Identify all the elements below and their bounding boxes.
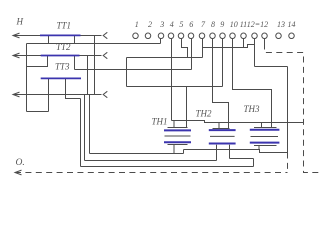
arrowhead right TT1 [103,32,107,38]
arrowhead right TT2 [103,52,107,58]
terminal 9 [220,33,226,39]
arrow left on TT2 primary [13,53,20,58]
wire TH1 bottom lead [173,145,175,154]
svg-text:7: 7 [201,20,206,29]
wire terminal 7 stem [202,39,204,58]
transformer TH2 core line [210,135,235,137]
transformer TH3 label [244,104,261,114]
terminal 12 [252,33,258,39]
wire terminal 11 stem [243,39,245,48]
wire terminal 12 stem down [254,39,256,67]
wire riser x183.4 [183,150,185,154]
transformer TH3 core line [251,136,279,138]
svg-text:Н: Н [16,17,24,27]
wire dashed from terminal 12b [265,44,320,173]
transformer TH1 bottom plate [168,144,188,146]
wire link y149 to TH2 [184,150,288,153]
wire TT2 secondary left lead [27,56,48,67]
transformer TH3 primary bar [250,129,280,131]
svg-text:ТН2: ТН2 [196,109,213,119]
transformer TH3 top plate [254,127,277,129]
transformer TT3 label [55,62,70,72]
transformer TH2 primary bar [209,129,236,131]
wire horizontal run y43 from bus to terminal 3 [27,43,161,45]
svg-text:ТН3: ТН3 [244,104,261,114]
wire TH2 left bottom lead [216,145,218,161]
transformer TH1 top plate [168,127,188,129]
terminal 2 [145,33,151,39]
transformer TH3 secondary bar [250,142,280,144]
wire TT1 secondary left lead [48,36,50,44]
wire terminal 9 stem [222,39,224,87]
svg-text:1: 1 [135,20,139,29]
wire voltage tap from TT2 line [87,56,89,95]
wire terminal 6 stem [191,39,193,70]
svg-text:9: 9 [220,20,224,29]
wire mid bottom run y160.2 [85,160,217,162]
svg-text:14: 14 [288,20,296,29]
wire TT2 secondary right lead [74,56,76,70]
transformer TT2 winding bar [41,55,80,57]
transformer TH3 bottom plate [254,145,277,147]
terminal 6 [188,33,194,39]
wire TH2 right bottom lead [229,145,231,159]
arrowhead right TT3 [103,91,107,97]
terminal 1 [133,33,139,39]
transformer TH1 label [152,117,168,127]
wire TH3 left top lead [261,123,263,128]
wire terminal 10 stem to TH3 [233,39,272,128]
wire vertical x118.2 [126,58,128,87]
wire voltage tap from TT1 line [94,36,96,95]
wire TT2 primary line [13,55,102,57]
svg-text:ТН1: ТН1 [152,117,168,127]
wire vertical x286.9 [287,67,289,153]
transformer TH2 top plate [213,128,230,130]
wire TH2 top lead from rail [218,123,220,129]
svg-text:ТТ1: ТТ1 [57,21,72,31]
terminal 8 [210,33,216,39]
transformer TT3 winding bar [41,77,81,79]
arrow left on TT1 primary [13,33,20,38]
svg-text:10: 10 [230,20,238,29]
wire bottom run y153.4 [90,153,184,155]
wire terminal 3 stem [160,39,162,44]
wire horizontal run y69.7 to terminal 6 [75,69,192,71]
terminal 7 [199,33,205,39]
svg-text:6: 6 [189,20,193,29]
wire TT3 primary line [13,94,102,96]
terminal number labels 1-14 [135,20,296,29]
wire terminal 5 jog [182,39,188,58]
svg-text:О.: О. [16,158,25,168]
arrow left on O bus [15,170,22,175]
wire TT1 secondary right lead [74,36,76,44]
transformer TT1 label [57,21,72,31]
wire horizontal y111 [27,111,49,113]
svg-text:3: 3 [159,20,164,29]
wire bottom run y166.1 [81,166,254,168]
svg-text:4: 4 [170,20,174,29]
wire terminal 4 stem to TH rail [171,39,173,121]
terminal 13 [276,33,282,39]
svg-text:13: 13 [277,20,285,29]
arrow left on TT3 primary [13,92,20,97]
transformer TT1 winding bar [40,34,81,36]
terminal 11 [241,33,247,39]
wire horizontal run y86.6 to terminal 9 [127,86,223,88]
wire riser x186.6 to TH1 [186,87,188,128]
transformer TT2 label [56,42,71,52]
wire run y67 to right [255,66,288,68]
wire TH1 top lead [173,121,175,128]
svg-text:5: 5 [179,20,183,29]
terminal 5 [178,33,184,39]
terminal 4 [168,33,174,39]
svg-text:12=12: 12=12 [247,20,268,29]
wire left vertical bus [26,44,28,112]
wire TH3 bottom lead [258,146,260,150]
wire horizontal run y47.1 terminals 7-12 [203,45,255,48]
wire TH top rail [172,121,305,123]
node H label [16,17,24,27]
wire terminal 12b solid stub [264,39,266,44]
terminal 3 [158,33,164,39]
transformer TH2 secondary bar [209,143,236,145]
transformer TH1 primary bar [164,129,191,131]
terminal 12b [262,33,268,39]
wire riser x259.5 [253,159,255,167]
wire link y158.8 TH2-TH3 [230,158,254,160]
wire vertical x84.8 [84,95,86,161]
wire dashed O bus [15,172,288,174]
wire TT3 bar left lead [48,78,50,111]
transformer TH1 secondary bar [164,141,191,143]
svg-text:ТТ3: ТТ3 [55,62,70,72]
wire horizontal run y54.8 [127,57,203,59]
wire TT3 bar right lead [66,78,81,98]
transformer TH2 label [196,109,213,119]
node O label [16,158,25,168]
terminal 10 [230,33,236,39]
svg-text:2: 2 [148,20,152,29]
svg-text:8: 8 [211,20,215,29]
wire terminal 8 stem to TH2 [213,39,229,129]
terminal 14 [289,33,295,39]
wire vertical x80.8 down [80,99,82,167]
transformer TH1 core line [165,135,191,137]
wire dashed vertical x286.9 [287,153,289,173]
wire vertical x89.4 [89,95,91,154]
wire TT1 primary line [13,35,102,37]
